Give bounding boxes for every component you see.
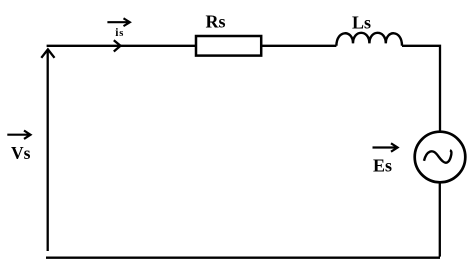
wire bottom	[46, 257, 440, 259]
arrowhead up on left wire	[41, 49, 54, 57]
inductor Ls	[336, 33, 402, 46]
svg-text:s: s	[119, 28, 123, 39]
vector arrow over Vs	[7, 131, 30, 139]
arrowhead is on top wire	[114, 40, 121, 51]
wire below source	[439, 182, 441, 257]
wire left vertical	[47, 50, 49, 251]
wire inductor-to-corner and right vertical down to source	[402, 46, 440, 131]
svg-text:Es: Es	[373, 156, 392, 176]
wire resistor-to-inductor	[261, 45, 336, 47]
svg-text:Vs: Vs	[11, 143, 31, 163]
vector arrow over is	[107, 18, 129, 26]
svg-text:Rs: Rs	[206, 12, 226, 32]
vector arrow over Es	[373, 143, 398, 151]
sine symbol in source	[424, 150, 451, 162]
resistor Rs	[196, 36, 261, 56]
svg-text:Ls: Ls	[352, 12, 371, 32]
ac source Es circle	[415, 132, 466, 183]
wire top-left segment	[47, 45, 196, 47]
